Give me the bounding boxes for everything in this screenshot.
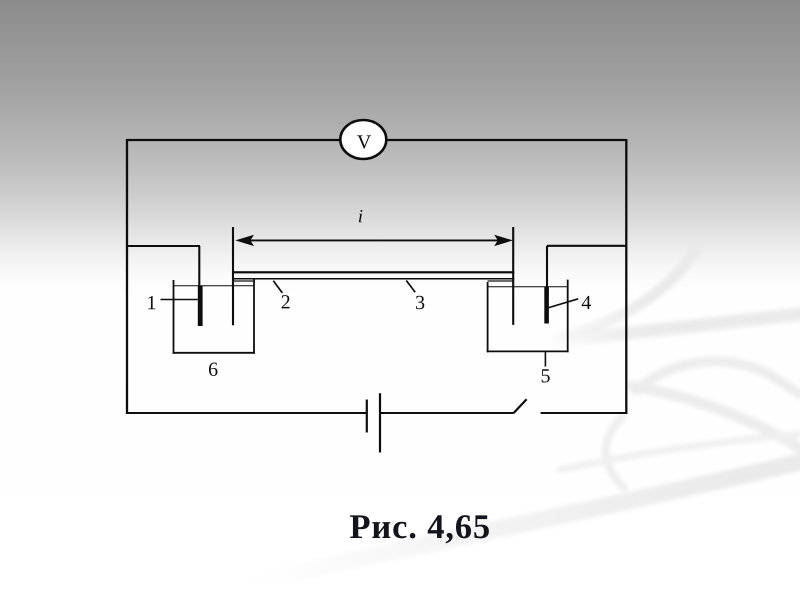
wire right branch vertical [546, 246, 548, 288]
label 2 [282, 295, 290, 308]
wire bottom middle segment [381, 412, 513, 414]
wire left branch horizontal [127, 245, 200, 247]
arrowhead left [235, 235, 254, 246]
arrowhead right [494, 235, 513, 246]
leader tick label 5 [544, 352, 546, 367]
label 6 [209, 363, 218, 376]
wire right vertical [625, 139, 627, 414]
voltmeter label V [357, 135, 371, 148]
leader tick label 2 [273, 281, 282, 293]
sample strip top edge [233, 271, 514, 273]
wire right branch horizontal [547, 245, 626, 247]
liquid level left [174, 285, 255, 287]
electrode 1 plate [198, 286, 203, 326]
dimension arrow line [240, 239, 508, 241]
leader tick label 4 [549, 299, 578, 308]
beaker 5 right wall [567, 280, 569, 353]
beaker 5 bottom [487, 350, 569, 352]
wire left vertical [126, 139, 128, 414]
wire top left segment [127, 139, 340, 141]
leader tick label 3 [406, 281, 415, 293]
battery positive plate [379, 393, 381, 452]
voltmeter V body [340, 120, 386, 159]
strip stub right [488, 280, 514, 281]
support rod left [232, 227, 234, 325]
battery negative plate [366, 400, 368, 433]
label 4 [582, 296, 591, 309]
wire bottom right segment [541, 412, 628, 414]
support rod right [512, 227, 514, 325]
sample strip bottom edge [233, 278, 514, 280]
caption Рис. 4,65 [350, 515, 489, 543]
switch lever [513, 399, 526, 413]
leader wire label 1 [161, 299, 198, 301]
label i [359, 210, 363, 222]
wire bottom left segment [126, 412, 366, 414]
label 3 [416, 296, 424, 309]
label 1 [148, 296, 155, 309]
strip stub left [233, 280, 255, 281]
electrode 4 plate [544, 287, 549, 324]
wire top right segment [387, 139, 627, 141]
wire left branch vertical [198, 246, 200, 288]
label 5 [542, 369, 550, 382]
beaker 5 left wall [487, 282, 489, 352]
beaker 6 bottom [173, 352, 255, 354]
beaker 6 left wall [173, 280, 175, 354]
liquid level right [488, 286, 568, 288]
beaker 6 right wall [253, 280, 255, 354]
